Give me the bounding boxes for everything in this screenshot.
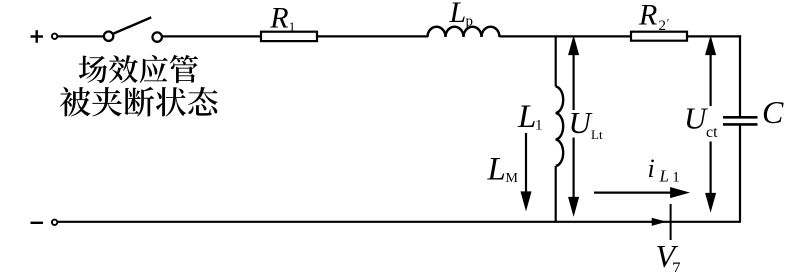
svg-text:L: L <box>487 152 506 188</box>
svg-text:L: L <box>517 99 536 135</box>
svg-text:R: R <box>638 0 657 31</box>
svg-text:′: ′ <box>667 16 670 30</box>
node marker V7 tick <box>670 204 672 240</box>
inductor L1 <box>556 87 563 167</box>
wire node to L1 <box>555 36 557 86</box>
svg-text:L: L <box>449 0 467 29</box>
svg-text:R: R <box>269 2 288 35</box>
wire right branch lower <box>739 124 741 221</box>
voltage arrow U_ct (double-headed, broken by label) <box>707 39 715 208</box>
wire right branch upper <box>739 35 741 117</box>
resistor R2 <box>631 32 687 41</box>
svg-text:i: i <box>648 154 655 183</box>
svg-text:M: M <box>506 171 519 186</box>
svg-text:U: U <box>569 105 594 140</box>
switch throw contact <box>153 32 162 41</box>
annotation text line 1: 场效应管 <box>79 55 198 83</box>
wire switch to R1 <box>162 35 261 37</box>
wire L1 to bottom <box>555 166 557 222</box>
current arrow L_M (downward) <box>522 133 530 207</box>
svg-text:p: p <box>466 14 474 30</box>
wire terminal to switch <box>58 35 104 37</box>
switch blade (open) <box>113 17 151 33</box>
current arrowhead on bottom wire <box>652 218 667 226</box>
current arrow i_L1 (rightward) <box>594 189 686 197</box>
svg-text:L: L <box>659 166 669 185</box>
wire R1 to Lp <box>317 35 428 37</box>
wire R2 to right corner <box>687 35 741 37</box>
bottom wire <box>58 221 741 223</box>
wire Lp to R2 <box>500 35 632 37</box>
minus terminal label <box>31 222 44 224</box>
switch S pole contact <box>104 32 113 41</box>
bottom-left terminal node <box>52 220 57 225</box>
svg-text:C: C <box>762 94 784 130</box>
inductor Lp <box>428 27 500 37</box>
voltage arrow U_Lt (double-headed) <box>570 39 578 213</box>
capacitor C <box>723 117 758 124</box>
svg-text:7: 7 <box>672 259 681 272</box>
svg-text:2: 2 <box>659 18 667 34</box>
svg-text:1: 1 <box>289 19 296 34</box>
svg-text:ct: ct <box>706 124 718 141</box>
top-left terminal node <box>52 34 57 39</box>
svg-text:1: 1 <box>672 169 680 185</box>
svg-text:1: 1 <box>535 118 543 134</box>
resistor R1 <box>261 32 317 41</box>
plus terminal label <box>31 30 44 43</box>
svg-text:Lt: Lt <box>591 127 603 142</box>
annotation text line 2: 被夹断状态 <box>60 87 218 117</box>
